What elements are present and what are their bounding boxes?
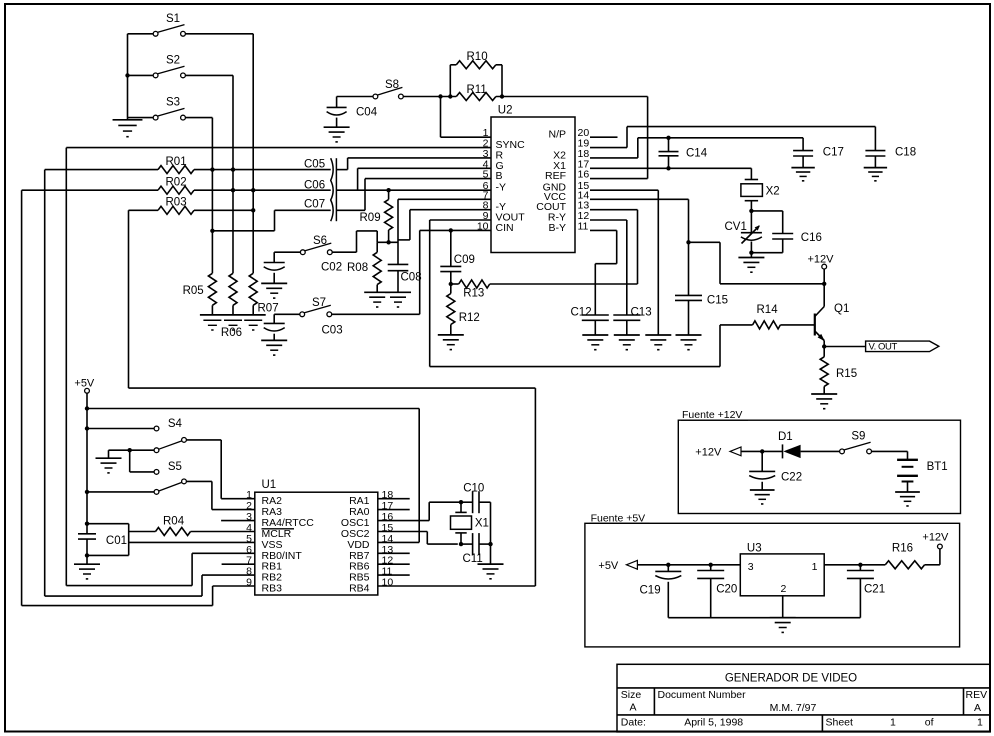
svg-text:R09: R09 bbox=[360, 212, 381, 224]
svg-text:U1: U1 bbox=[262, 479, 277, 491]
ground C04 bbox=[324, 126, 350, 128]
svg-text:C06: C06 bbox=[304, 180, 325, 192]
svg-text:C04: C04 bbox=[356, 107, 378, 119]
node R09 top bbox=[386, 188, 390, 192]
svg-text:R05: R05 bbox=[183, 285, 204, 297]
svg-text:C15: C15 bbox=[707, 295, 728, 307]
resistor R12 bbox=[450, 284, 452, 294]
wire S1-S2-S3 left rail bbox=[127, 34, 129, 118]
title block frame bbox=[617, 664, 990, 732]
wire step to U2 pin4 bbox=[357, 168, 359, 190]
svg-text:1: 1 bbox=[977, 717, 983, 729]
node S2 tap bbox=[125, 73, 129, 77]
svg-text:C09: C09 bbox=[454, 254, 475, 266]
svg-text:S2: S2 bbox=[166, 55, 180, 67]
switch S1 bbox=[128, 33, 154, 35]
wire U1 pin14 VDD bbox=[378, 541, 419, 543]
wire S3 to R05 column bbox=[185, 117, 212, 119]
capacitor C17 bbox=[793, 150, 813, 152]
node R10 right bbox=[500, 94, 504, 98]
svg-text:A: A bbox=[629, 702, 636, 714]
svg-text:C13: C13 bbox=[631, 307, 652, 319]
switch S9 bbox=[840, 449, 845, 454]
wire C03 to S7 bbox=[274, 313, 300, 315]
resistor R09 bbox=[388, 190, 390, 199]
ground C22 bbox=[750, 489, 775, 491]
wire ground bus bbox=[668, 617, 860, 619]
wire S9 to BT1 bbox=[872, 450, 908, 452]
svg-text:C17: C17 bbox=[823, 147, 844, 159]
wire U2 pin7 bbox=[398, 198, 491, 200]
wire SYNC net bbox=[66, 147, 491, 149]
capacitor C13 bbox=[613, 314, 640, 316]
wire gnd line to S5 throw bbox=[129, 450, 131, 472]
wire R08/R09 node row bbox=[377, 241, 398, 243]
node X1 bottom bbox=[459, 542, 463, 546]
wire rail to S5 throw bbox=[87, 491, 154, 493]
ground R08 bbox=[364, 291, 390, 293]
svg-text:B: B bbox=[496, 170, 503, 182]
svg-text:S4: S4 bbox=[168, 418, 183, 430]
svg-text:X2: X2 bbox=[766, 186, 780, 198]
crystal X1 bbox=[460, 502, 462, 512]
wire C04 to S8 bbox=[337, 96, 373, 98]
node R10 left bbox=[448, 94, 452, 98]
svg-text:+5V: +5V bbox=[74, 378, 95, 390]
resistor R07 bbox=[249, 273, 257, 305]
svg-text:C11: C11 bbox=[463, 553, 483, 565]
node R02/S1 bbox=[251, 188, 255, 192]
arrow +12V bbox=[730, 447, 741, 456]
switch S2 bbox=[128, 74, 154, 76]
ground C03 bbox=[261, 339, 287, 341]
svg-text:C16: C16 bbox=[801, 232, 822, 244]
wire U2 pin13 COUT bbox=[590, 209, 638, 211]
node emitter/R15 bbox=[822, 344, 826, 348]
svg-text:U3: U3 bbox=[747, 543, 762, 555]
power +12V Q1 bbox=[822, 264, 827, 269]
capacitor C03 bbox=[273, 314, 275, 323]
resistor R03 bbox=[129, 209, 159, 211]
wire U2 pin9 VOUT to R14 bbox=[430, 219, 491, 221]
svg-text:C08: C08 bbox=[401, 272, 422, 284]
wire U1 pin12 RB6 stub bbox=[378, 563, 410, 565]
switch S5 bbox=[154, 470, 159, 475]
svg-text:3: 3 bbox=[748, 561, 754, 573]
box Fuente +5V bbox=[585, 523, 960, 647]
switch S8 bbox=[373, 94, 378, 99]
wire R11 to REF riser bbox=[496, 96, 648, 98]
svg-text:N/P: N/P bbox=[548, 129, 566, 141]
wire rail to S4 throw bbox=[87, 428, 154, 430]
svg-text:CIN: CIN bbox=[496, 222, 514, 234]
svg-text:RB4: RB4 bbox=[349, 583, 370, 595]
wire S6 to R08 node bbox=[332, 251, 356, 253]
box Fuente +12V bbox=[678, 420, 960, 513]
wire R16 to +12V bbox=[925, 564, 940, 566]
node C07/S3 riser bbox=[210, 229, 214, 233]
svg-text:R16: R16 bbox=[892, 543, 913, 555]
svg-text:Date:: Date: bbox=[621, 717, 646, 729]
node C22 tap bbox=[760, 449, 764, 453]
wire U2 pin19 to C18 bbox=[590, 147, 627, 149]
wire U2 pin8 bbox=[410, 209, 491, 211]
wire U2 pin15 GND bbox=[590, 189, 658, 191]
wire U1 pin8 RB2 bbox=[202, 574, 255, 576]
node rail/C01 top bbox=[85, 522, 89, 526]
wire U3 pin1 out bbox=[824, 564, 885, 566]
node C21 tap bbox=[858, 563, 862, 567]
ground R05 R06 R07 bbox=[200, 314, 266, 316]
node C09 top bbox=[449, 228, 453, 232]
connector V.OUT bbox=[866, 341, 939, 352]
node X1 top bbox=[459, 500, 463, 504]
arrow +5V bbox=[626, 560, 637, 569]
svg-text:D1: D1 bbox=[778, 431, 793, 443]
wire U2 pin12 R-Y to C13 bbox=[590, 219, 627, 221]
capacitor C12 bbox=[582, 314, 609, 316]
wire S5 pole to U1 pin2 bbox=[186, 480, 212, 482]
ground pin15 bbox=[645, 334, 671, 336]
svg-text:S9: S9 bbox=[851, 431, 865, 443]
diode D1 bbox=[782, 444, 784, 458]
ground S4 bbox=[96, 457, 122, 459]
svg-text:C21: C21 bbox=[864, 584, 885, 596]
wire RB3 net vertical bbox=[21, 190, 23, 605]
wire R14 to Q1 base bbox=[780, 324, 814, 326]
capacitor C05 C06 C07 bank plates bbox=[331, 158, 333, 221]
regulator U3 body bbox=[740, 554, 824, 596]
svg-text:S5: S5 bbox=[168, 461, 182, 473]
ground U3 bbox=[770, 617, 796, 619]
node rail/VDD bbox=[85, 406, 89, 410]
svg-text:C02: C02 bbox=[321, 262, 342, 274]
microcontroller U1 body bbox=[255, 492, 378, 595]
op-amp U2 body bbox=[491, 117, 575, 253]
wire U1 pin9 RB3 bbox=[213, 585, 255, 587]
svg-text:11: 11 bbox=[578, 220, 589, 232]
node R09 bottom bbox=[386, 240, 390, 244]
svg-text:+12V: +12V bbox=[695, 447, 722, 459]
crystal X2 bbox=[750, 168, 752, 179]
svg-text:April 5, 1998: April 5, 1998 bbox=[684, 717, 743, 729]
svg-text:C12: C12 bbox=[571, 307, 592, 319]
ground R12 bbox=[438, 334, 464, 336]
power +12V in bbox=[938, 544, 943, 549]
svg-text:C10: C10 bbox=[463, 483, 484, 495]
resistor R05 bbox=[208, 273, 216, 305]
capacitor C10 bbox=[461, 501, 473, 503]
node R01/S3 bbox=[210, 167, 214, 171]
wire U3 pin2 to ground bbox=[782, 596, 784, 618]
resistor R14 bbox=[753, 321, 781, 329]
wire U1 pin11 RB5 stub bbox=[378, 574, 410, 576]
resistor R06 bbox=[229, 273, 237, 305]
svg-text:X1: X1 bbox=[475, 518, 489, 530]
wire U1 pin13 RB7 stub bbox=[378, 552, 410, 554]
wire U1 pin3 stub bbox=[221, 520, 255, 522]
svg-text:S7: S7 bbox=[312, 297, 326, 309]
wire RB2 net vertical bbox=[44, 170, 46, 596]
node C14 top bbox=[666, 136, 670, 140]
wire U1 pin17 RA0 stub bbox=[378, 509, 410, 511]
wire U2 pin18 X2 to C17 bbox=[590, 157, 638, 159]
ground C12 bbox=[582, 334, 608, 336]
svg-text:S3: S3 bbox=[166, 97, 180, 109]
svg-text:1: 1 bbox=[812, 561, 818, 573]
svg-text:S8: S8 bbox=[385, 79, 399, 91]
switch S3 bbox=[128, 117, 154, 119]
wire CV1/C16 branch bbox=[751, 210, 782, 212]
capacitor C19 bbox=[667, 565, 669, 572]
svg-text:R01: R01 bbox=[166, 156, 187, 168]
wire U2 pin1 bbox=[440, 97, 442, 138]
ground X1 block bbox=[490, 544, 492, 564]
wire VDD feed bbox=[87, 408, 419, 410]
capacitor C16 bbox=[772, 233, 793, 235]
svg-text:R13: R13 bbox=[463, 288, 484, 300]
battery BT1 bbox=[897, 459, 918, 461]
svg-text:R10: R10 bbox=[467, 51, 488, 63]
node rail/S4 bbox=[85, 426, 89, 430]
wire S1 to R07 column bbox=[185, 33, 253, 35]
wire D1 to S9 bbox=[801, 450, 840, 452]
svg-text:R07: R07 bbox=[258, 303, 279, 315]
node R03/S1 bbox=[251, 208, 255, 212]
svg-text:R03: R03 bbox=[166, 197, 187, 209]
resistor R01 bbox=[45, 169, 158, 171]
resistor R11 bbox=[456, 93, 496, 101]
wire C07 to U2 pin5 bbox=[336, 209, 365, 211]
svg-text:+5V: +5V bbox=[598, 560, 619, 572]
wire VSS row bbox=[129, 541, 255, 543]
svg-text:REF: REF bbox=[545, 170, 566, 182]
wire U2 pin14 VCC bbox=[590, 198, 689, 200]
wire S4 pole to U1 pin1 bbox=[186, 439, 221, 441]
svg-text:C19: C19 bbox=[640, 585, 661, 597]
svg-text:Sheet: Sheet bbox=[826, 717, 854, 729]
wire +12V to D1 bbox=[741, 450, 783, 452]
svg-text:V. OUT: V. OUT bbox=[869, 342, 898, 353]
capacitor C15 bbox=[688, 242, 690, 295]
capacitor C20 bbox=[710, 565, 712, 571]
svg-text:GENERADOR DE VIDEO: GENERADOR DE VIDEO bbox=[725, 673, 857, 685]
capacitor C04 bbox=[336, 97, 338, 108]
svg-text:U2: U2 bbox=[498, 105, 513, 117]
svg-text:16: 16 bbox=[578, 169, 590, 181]
capacitor C22 bbox=[761, 451, 763, 471]
resistor R10 bbox=[449, 65, 451, 97]
node rail/S5 bbox=[85, 490, 89, 494]
ground BT1 bbox=[895, 491, 920, 493]
node +12V/collector bbox=[822, 282, 826, 286]
svg-text:RB3: RB3 bbox=[262, 583, 283, 595]
svg-text:2: 2 bbox=[781, 583, 787, 595]
wire S8 to R11 node bbox=[403, 96, 456, 98]
wire S7 to U2 pin10 bbox=[332, 313, 420, 315]
resistor R13 bbox=[451, 283, 459, 285]
svg-text:R04: R04 bbox=[163, 516, 185, 528]
capacitor CV1 variable bbox=[750, 211, 752, 233]
wire MCLR bus bbox=[87, 523, 129, 525]
ground C01 rail bbox=[74, 563, 100, 565]
switch S4 bbox=[154, 426, 159, 431]
transistor Q1 bbox=[814, 314, 816, 336]
node C11/gnd bbox=[488, 542, 492, 546]
svg-text:R02: R02 bbox=[166, 176, 187, 188]
node R01/S2 bbox=[231, 167, 235, 171]
ground CV1 bbox=[750, 253, 752, 258]
capacitor C09 bbox=[450, 230, 452, 266]
svg-text:Document Number: Document Number bbox=[658, 689, 747, 701]
wire S4 ground line bbox=[109, 449, 155, 451]
wire OSC1 to X1 bbox=[378, 520, 429, 522]
svg-text:A: A bbox=[974, 702, 981, 714]
svg-text:R14: R14 bbox=[757, 304, 779, 316]
svg-text:M.M. 7/97: M.M. 7/97 bbox=[770, 702, 817, 714]
wire U1 pin6 RB0 to SYNC bbox=[192, 552, 255, 554]
ground C15 bbox=[676, 334, 702, 336]
wire C02 to S6 bbox=[274, 251, 300, 253]
wire U2 pin11 B-Y to C12 bbox=[590, 229, 617, 231]
svg-text:BT1: BT1 bbox=[927, 461, 948, 473]
svg-text:+12V: +12V bbox=[922, 532, 949, 544]
capacitor C08 bbox=[388, 263, 409, 265]
wire C05 to U2 pin3 bbox=[336, 169, 347, 171]
resistor R15 bbox=[823, 347, 825, 357]
ground R15 bbox=[811, 393, 837, 395]
capacitor C11 bbox=[461, 543, 473, 545]
node rail/C01 bottom bbox=[85, 553, 89, 557]
wire OSC2 to X1 bbox=[378, 531, 428, 533]
capacitor C21 bbox=[859, 565, 861, 571]
node C19 tap bbox=[666, 563, 670, 567]
svg-text:C14: C14 bbox=[686, 148, 708, 160]
resistor R16 bbox=[885, 561, 924, 569]
wire S2 to R06 column bbox=[185, 74, 233, 76]
svg-text:CV1: CV1 bbox=[725, 221, 747, 233]
node S4gnd/S5 bbox=[128, 448, 132, 452]
switch S6 bbox=[300, 250, 305, 255]
svg-text:R12: R12 bbox=[459, 312, 480, 324]
ground C18 bbox=[864, 167, 887, 169]
svg-text:C05: C05 bbox=[304, 158, 325, 170]
svg-text:of: of bbox=[925, 717, 934, 729]
svg-text:R11: R11 bbox=[467, 84, 487, 96]
ground C17 bbox=[791, 167, 814, 169]
resistor R02 bbox=[22, 189, 158, 191]
ground C08 bbox=[385, 291, 411, 293]
svg-text:REV: REV bbox=[966, 689, 988, 701]
capacitor C14 bbox=[668, 138, 670, 152]
svg-text:Size: Size bbox=[621, 689, 642, 701]
wire C07 detour to S3 riser bbox=[275, 209, 331, 211]
svg-text:R15: R15 bbox=[836, 368, 857, 380]
svg-text:R08: R08 bbox=[347, 262, 368, 274]
node C09/R12/R13 bbox=[449, 282, 453, 286]
svg-text:Fuente +12V: Fuente +12V bbox=[682, 409, 742, 421]
wire C10 down bbox=[490, 502, 492, 544]
svg-text:C03: C03 bbox=[322, 325, 343, 337]
svg-text:-Y: -Y bbox=[496, 182, 507, 194]
ground C13 bbox=[614, 334, 640, 336]
switch S7 bbox=[300, 312, 305, 317]
wire U1 pin18 RA1 stub bbox=[378, 498, 410, 500]
node VCC/C15 bbox=[686, 240, 690, 244]
svg-text:Q1: Q1 bbox=[834, 303, 849, 315]
resistor R04 bbox=[129, 531, 156, 533]
svg-text:C07: C07 bbox=[304, 199, 325, 211]
wire U1 pin10 RB4 to R03 bbox=[378, 585, 536, 587]
wire U2 pin17 X1 row bbox=[590, 167, 751, 169]
node X2/CV1/C16 top bbox=[749, 209, 753, 213]
node CV1/C16 bottom bbox=[749, 251, 753, 255]
wire U2 pin20 N/P stub bbox=[590, 136, 618, 138]
capacitor C01 bbox=[78, 533, 96, 535]
wire +5V to U3 bbox=[637, 564, 740, 566]
svg-text:C18: C18 bbox=[895, 147, 916, 159]
svg-text:+12V: +12V bbox=[808, 254, 835, 266]
svg-text:R06: R06 bbox=[221, 327, 242, 339]
wire RB4 net vertical bbox=[128, 210, 130, 388]
ground S-rail bbox=[127, 118, 129, 120]
svg-text:5: 5 bbox=[483, 169, 489, 181]
node R02/S2 bbox=[231, 188, 235, 192]
resistor R08 bbox=[376, 242, 378, 252]
svg-text:1: 1 bbox=[890, 717, 896, 729]
capacitor C18 bbox=[865, 150, 885, 152]
svg-text:S6: S6 bbox=[313, 235, 327, 247]
wire U1 pin7 RB1 stub bbox=[222, 563, 255, 565]
node S8/pin1 bbox=[438, 94, 442, 98]
svg-text:C01: C01 bbox=[106, 535, 127, 547]
wire C06/pin6 row bbox=[336, 189, 491, 191]
capacitor C02 bbox=[273, 252, 275, 262]
wire emitter to V.OUT bbox=[824, 346, 865, 348]
svg-text:C22: C22 bbox=[781, 472, 802, 484]
node C20 tap bbox=[709, 563, 713, 567]
svg-text:B-Y: B-Y bbox=[548, 222, 566, 234]
svg-text:S1: S1 bbox=[166, 13, 180, 25]
svg-text:C20: C20 bbox=[716, 584, 737, 596]
node C14 bottom bbox=[666, 166, 670, 170]
ground C02 bbox=[261, 282, 287, 284]
